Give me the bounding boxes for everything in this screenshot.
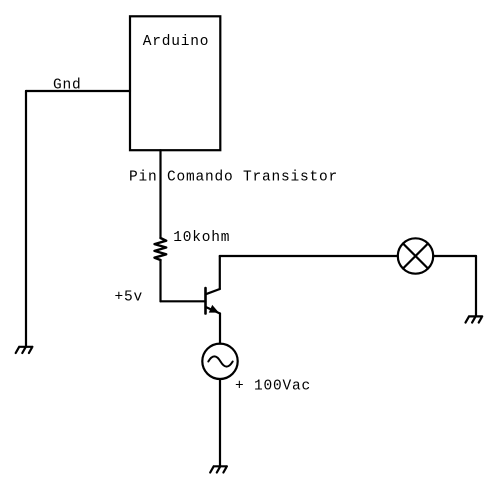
- transistor Q1 base bar: [204, 288, 207, 314]
- lamp DS1 circle: [398, 238, 433, 273]
- wire emitter vertical: [219, 314, 221, 344]
- transistor Q1 emitter arrowhead: [210, 306, 218, 312]
- wire collector to lamp: [220, 255, 398, 257]
- wire pin comando: [159, 150, 161, 238]
- resistor R1 10kohm: [155, 238, 167, 260]
- svg-text:Arduino: Arduino: [143, 34, 210, 50]
- wire collector vertical: [219, 256, 221, 289]
- svg-text:Pin Comando Transistor: Pin Comando Transistor: [129, 170, 338, 186]
- wire Gnd horizontal: [26, 90, 130, 92]
- Arduino block U1: [130, 16, 220, 150]
- wire lamp to right corner: [433, 255, 476, 257]
- ground left: [16, 347, 33, 353]
- wire AC source to ground: [219, 379, 221, 466]
- wire right vertical: [475, 256, 477, 316]
- wire resistor to base node: [159, 260, 161, 301]
- wire base horizontal: [161, 300, 206, 302]
- lamp DS1 X: [403, 244, 428, 269]
- AC source V1 circle: [202, 344, 237, 379]
- svg-text:+5v: +5v: [115, 289, 144, 305]
- svg-text:10kohm: 10kohm: [173, 230, 230, 246]
- wire left vertical: [25, 91, 27, 347]
- svg-text:+ 100Vac: + 100Vac: [235, 378, 311, 394]
- AC source V1 sine: [208, 356, 232, 366]
- transistor Q1 emitter slant: [206, 307, 221, 314]
- ground bottom: [210, 466, 227, 472]
- ground right: [466, 316, 483, 322]
- transistor Q1 collector slant: [206, 289, 220, 294]
- svg-text:Gnd: Gnd: [53, 78, 82, 94]
